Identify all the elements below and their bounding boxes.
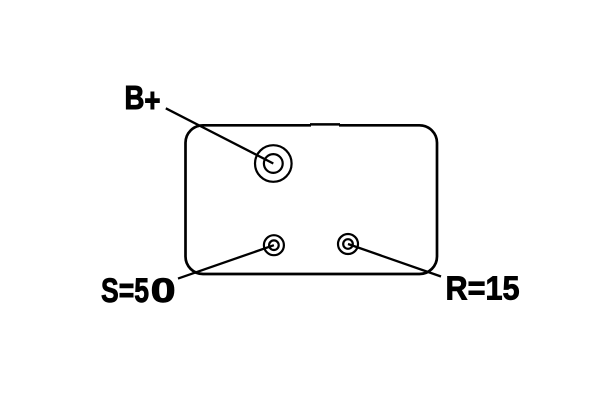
wire leader R=15 xyxy=(348,244,441,277)
terminal R=15 inner ring xyxy=(343,239,353,249)
svg-text:B: B xyxy=(125,80,145,117)
terminal S=50 outer ring xyxy=(264,235,284,255)
wire leader S=50 xyxy=(178,245,274,278)
svg-text:R=15: R=15 xyxy=(446,270,520,307)
terminal B+ outer ring xyxy=(255,145,292,182)
top edge step (scan artifact) xyxy=(311,124,339,127)
terminal R=15 outer ring xyxy=(338,234,358,254)
svg-text:S=5: S=5 xyxy=(101,272,149,310)
svg-text:0: 0 xyxy=(151,272,176,310)
svg-text:+: + xyxy=(144,82,160,119)
wire leader B+ xyxy=(166,108,273,163)
connector body outline xyxy=(186,125,438,274)
terminal S=50 inner ring xyxy=(269,240,279,250)
terminal B+ inner ring xyxy=(264,154,283,173)
